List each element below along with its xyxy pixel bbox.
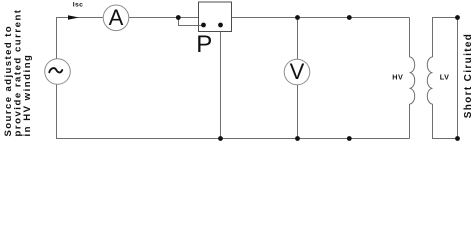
svg-text:Short Ciruited: Short Ciruited	[463, 33, 474, 119]
wire wattmeter voltage lead down	[220, 31, 222, 139]
AC source sine symbol	[49, 68, 62, 72]
svg-text:LV: LV	[440, 73, 450, 82]
wire ammeter to wattmeter	[129, 17, 199, 19]
current arrow Isc	[68, 15, 79, 20]
junction dot voltmeter top	[295, 15, 300, 20]
svg-text:P: P	[196, 31, 212, 58]
inductor HV winding	[410, 57, 415, 104]
voltmeter V1 circle	[284, 59, 310, 85]
wire HV top lead	[409, 18, 411, 58]
AC source circle	[45, 59, 71, 85]
wattmeter terminal dot left	[201, 23, 206, 28]
wattmeter P box	[199, 2, 232, 32]
junction dot voltmeter bottom	[295, 136, 300, 141]
inductor LV winding	[427, 57, 432, 104]
junction dot wattmeter bottom	[218, 136, 223, 141]
wattmeter bypass re-entry wire inside box	[199, 25, 204, 27]
svg-text:HV: HV	[392, 73, 403, 82]
ammeter A1 circle	[103, 5, 129, 31]
wire HV bottom lead	[409, 104, 411, 139]
svg-text:A: A	[109, 5, 124, 30]
wire wattmeter to HV top	[232, 17, 410, 19]
junction dot LV bottom right	[455, 136, 460, 141]
wire LV loop	[433, 18, 458, 139]
junction dot node bottom	[347, 136, 352, 141]
wire voltmeter top lead	[297, 18, 299, 60]
svg-text:in HV winding: in HV winding	[22, 54, 33, 137]
svg-text:V: V	[290, 59, 305, 84]
svg-text:Isc: Isc	[73, 2, 83, 9]
wire wattmeter bypass	[179, 18, 204, 26]
junction dot node top	[347, 15, 352, 20]
junction dot bypass top	[176, 15, 181, 20]
wire top rail left: source to ammeter	[57, 18, 104, 59]
wattmeter terminal dot right	[218, 23, 223, 28]
wire voltmeter bottom lead	[297, 85, 299, 139]
junction dot LV top right	[455, 15, 460, 20]
wire bottom rail	[57, 84, 410, 138]
